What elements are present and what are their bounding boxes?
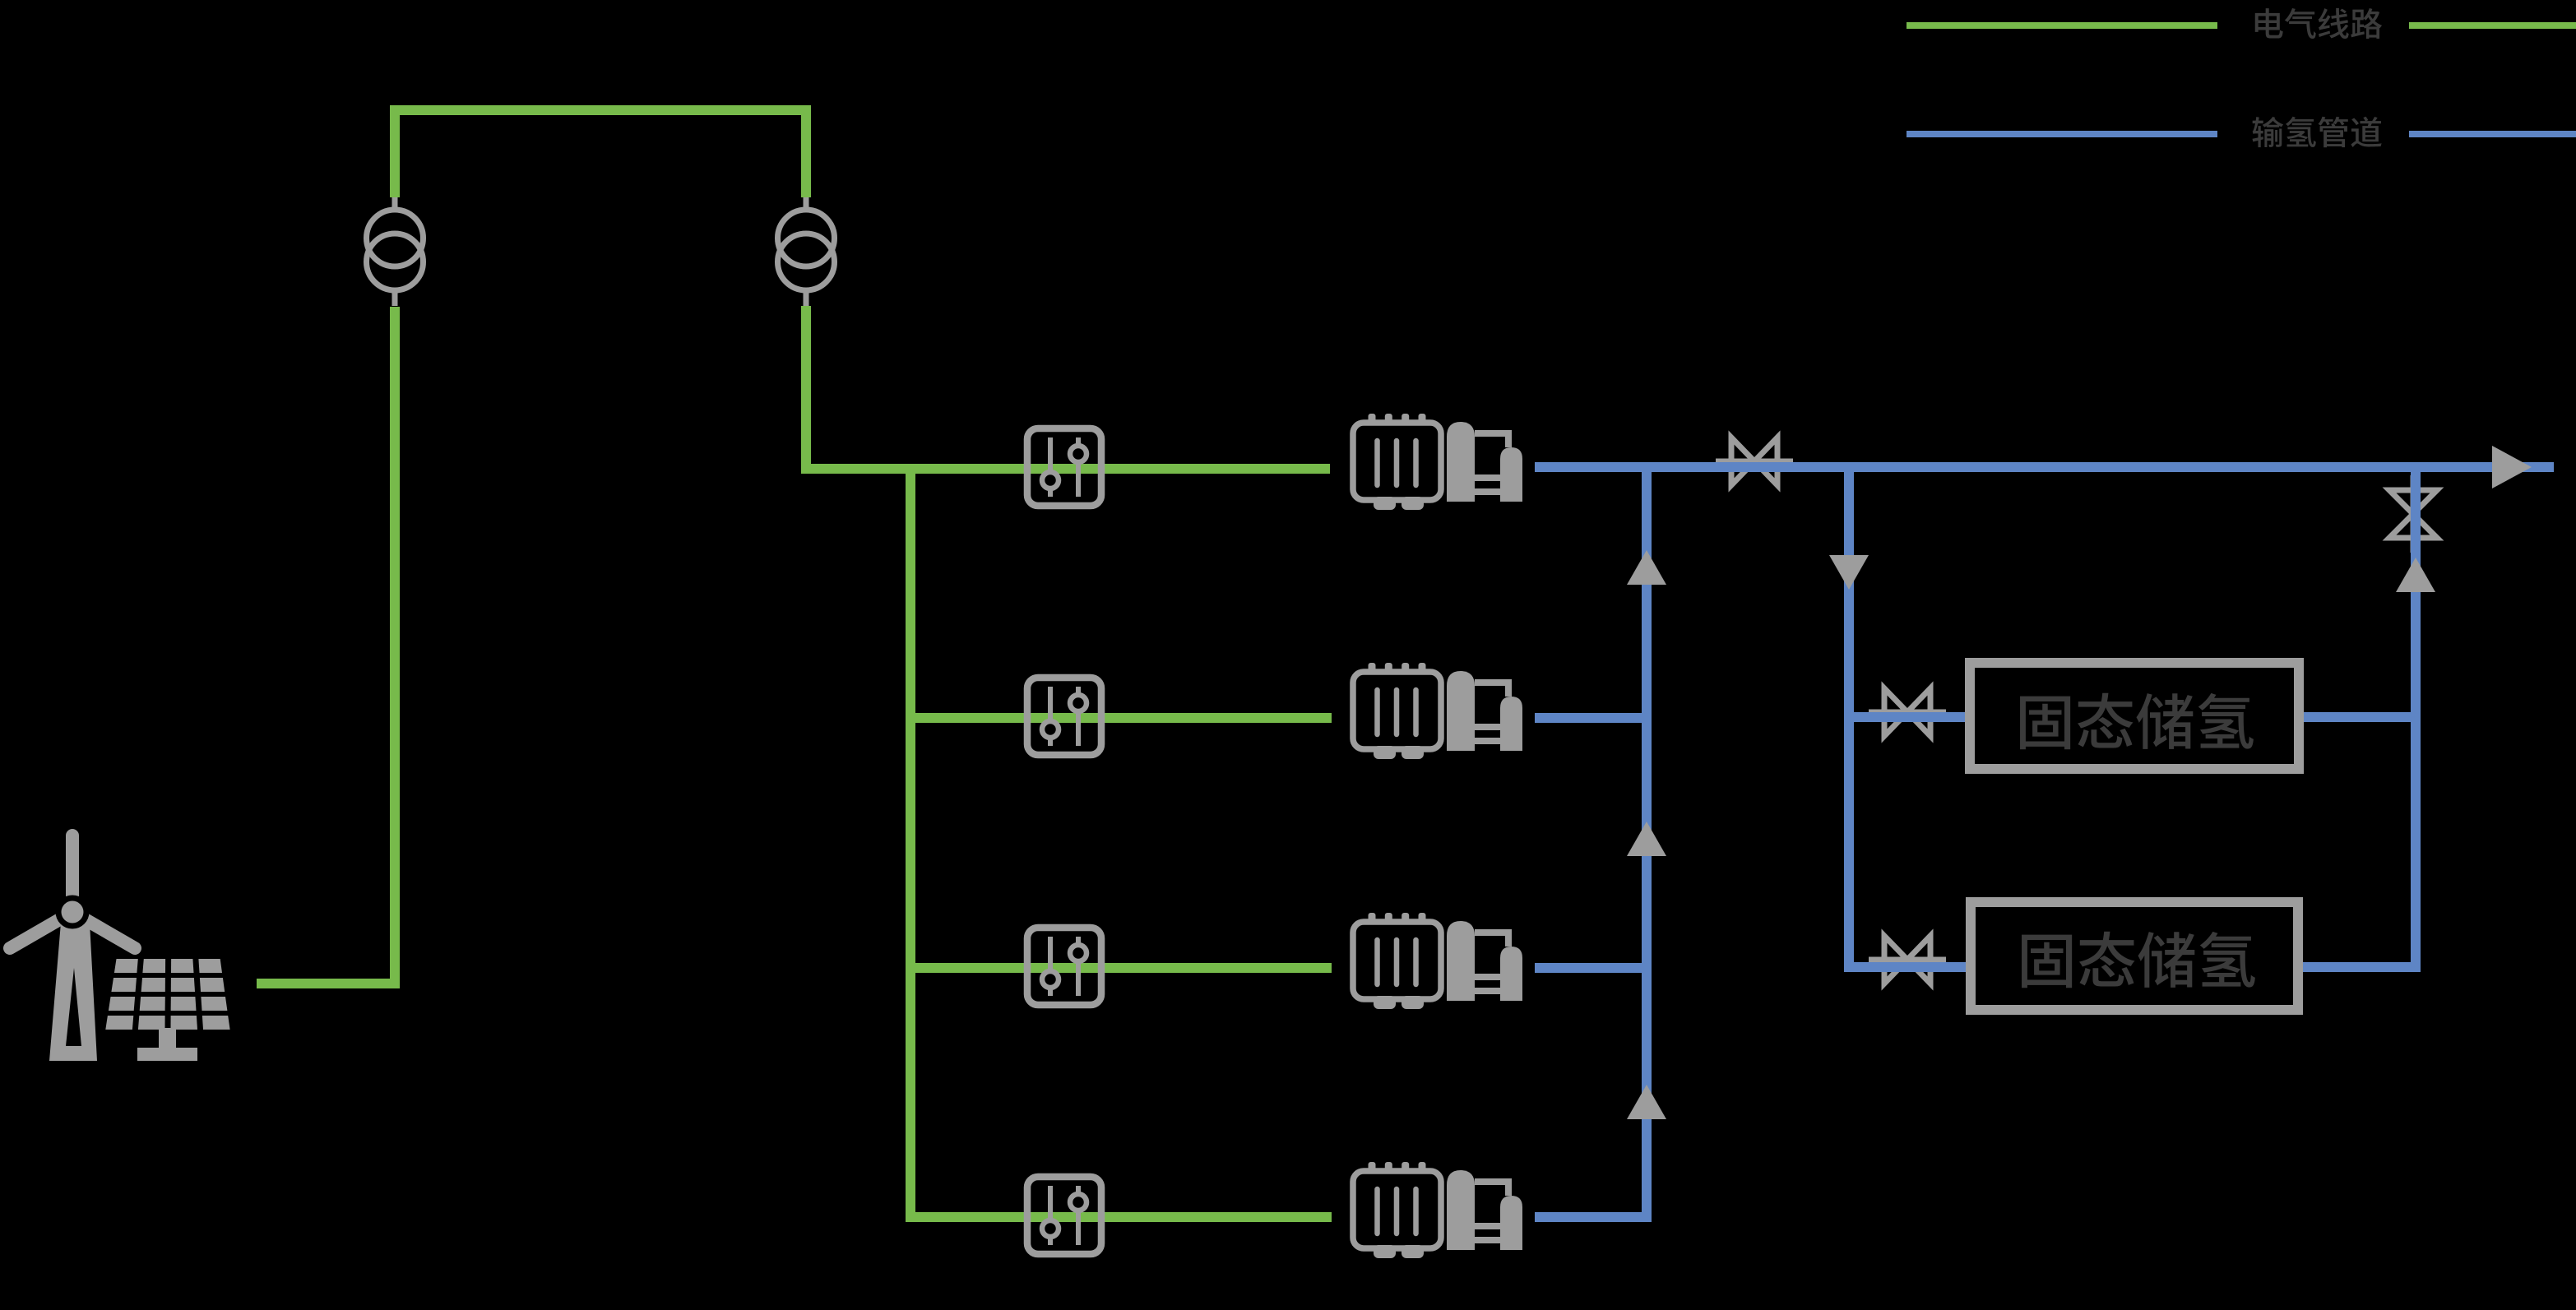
transformer T2	[778, 197, 835, 306]
wire: source feeder to riser junction	[257, 979, 395, 988]
check valve arrow (up) on collector, between rows 1-2	[1627, 550, 1666, 585]
valve V3 at storage tank B inlet	[1869, 936, 1946, 984]
legend: electrical line sample (green)	[1907, 22, 2576, 29]
valve V2 at storage tank A inlet	[1869, 688, 1946, 736]
switch S1 (disconnector)	[1027, 428, 1101, 506]
pipe: main hydrogen header from EL1 to outlet	[1535, 462, 2554, 472]
check valve arrow (up) on collector, between rows 3-4	[1627, 1085, 1666, 1119]
valve V1 on main header	[1716, 437, 1793, 485]
valve V4 on return riser (vertical)	[2389, 475, 2437, 553]
electrolyzer EL3 with gas processing unit	[1353, 913, 1522, 1009]
storage tank B box	[1971, 902, 2298, 1010]
pipe: storage tank B return	[2299, 962, 2421, 972]
legend: hydrogen pipeline sample (blue)	[1907, 131, 2576, 137]
switch S4 (disconnector)	[1027, 1177, 1101, 1254]
transformer T1	[367, 197, 424, 306]
wind turbine icon	[10, 836, 135, 1061]
arrow: hydrogen product outlet	[2492, 446, 2532, 488]
pipe: EL4 output and collector riser	[1535, 467, 1647, 1217]
electrolyzer EL4 with gas processing unit	[1353, 1162, 1522, 1258]
wire: T1 top link over to T2	[395, 110, 806, 197]
switch S2 (disconnector)	[1027, 678, 1101, 755]
legend label: 电气线路	[2255, 8, 2382, 39]
pipe: EL2 output	[1535, 713, 1652, 723]
wire: T2 down to feeder bus and branch 1 feeder	[806, 306, 1330, 469]
switch S3 (disconnector)	[1027, 928, 1101, 1005]
electrolyzer EL1 with gas processing unit	[1353, 414, 1522, 510]
pipe: EL3 output	[1535, 963, 1652, 973]
check valve arrow (up) on collector, between rows 2-3	[1627, 822, 1666, 856]
wire: branch 3 feeder	[910, 963, 1332, 973]
pipe: storage tank A return	[2299, 712, 2421, 722]
label: 固态储氢 (tank A)	[2020, 693, 2254, 749]
check valve arrow (up) on return riser	[2396, 558, 2435, 592]
pipe: storage tank A feed	[1849, 712, 1970, 722]
wire: branch 2 feeder	[910, 713, 1332, 723]
legend label: 输氢管道	[2252, 117, 2381, 147]
wire: green bus riser with branch 4 feeder	[910, 469, 1332, 1217]
check valve arrow (down) on storage feed riser	[1829, 555, 1869, 590]
storage tank A box	[1970, 663, 2299, 769]
pipe: storage feed riser	[1849, 467, 1970, 967]
label: 固态储氢 (tank B)	[2022, 932, 2255, 988]
solar panel icon	[105, 959, 229, 1061]
electrolyzer EL2 with gas processing unit	[1353, 663, 1522, 759]
pipe: return riser to main header	[2411, 467, 2421, 967]
wire: riser up to transformer T1	[395, 307, 400, 984]
